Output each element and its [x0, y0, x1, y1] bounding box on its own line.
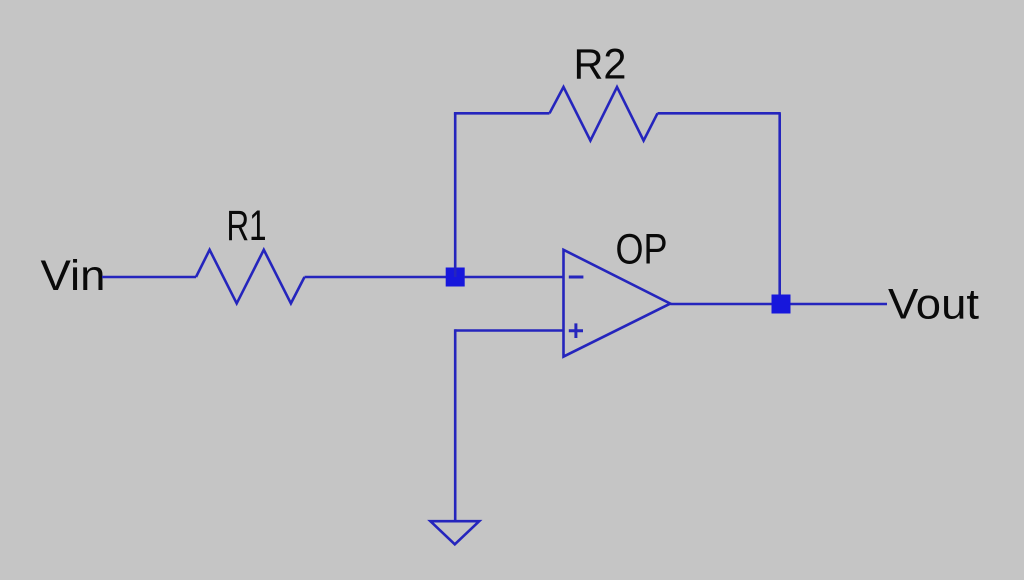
resistor R1: [196, 250, 305, 304]
svg-text:R1: R1: [227, 203, 267, 250]
op-amp plus symbol: [569, 323, 583, 338]
wire node A to op-amp inverting input: [464, 276, 564, 279]
svg-text:OP: OP: [616, 226, 668, 273]
wire output node to Vout: [791, 303, 888, 306]
op-amp U1 triangle: [564, 250, 671, 357]
op-amp minus symbol: [569, 276, 584, 279]
wire op-amp non-inverting input to left: [455, 329, 563, 332]
wire feedback right vertical down to output node: [778, 113, 781, 304]
node B (output junction): [772, 295, 791, 314]
wire op-amp output to output node: [670, 303, 772, 306]
wire feedback top-left to R2: [454, 112, 550, 115]
wire node A up to feedback: [454, 113, 457, 277]
node A (inverting input junction): [446, 268, 465, 287]
resistor R2: [550, 87, 658, 141]
wire R1 to node A: [305, 276, 447, 279]
svg-text:R2: R2: [574, 41, 627, 88]
svg-text:Vin: Vin: [41, 253, 106, 300]
svg-text:Vout: Vout: [888, 282, 979, 329]
wire down to ground: [455, 331, 456, 521]
ground symbol: [430, 521, 479, 544]
wire R2 to feedback top-right corner: [658, 112, 781, 115]
wire Vin to R1: [102, 276, 196, 279]
